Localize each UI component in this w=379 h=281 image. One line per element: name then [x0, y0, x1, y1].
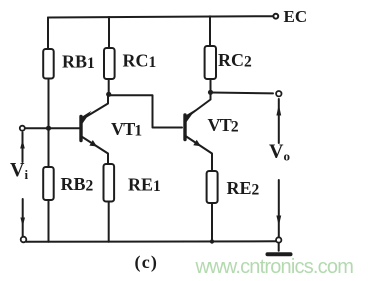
- svg-text:VT1: VT1: [111, 119, 141, 140]
- svg-text:RE1: RE1: [128, 175, 161, 196]
- svg-text:RC1: RC1: [123, 51, 157, 72]
- svg-text:Vi: Vi: [10, 159, 28, 182]
- svg-text:Vo: Vo: [269, 141, 290, 164]
- svg-text:RB2: RB2: [61, 174, 94, 195]
- svg-text:EC: EC: [284, 7, 308, 26]
- svg-text:VT2: VT2: [208, 115, 239, 136]
- svg-text:(c): (c): [135, 252, 159, 273]
- svg-text:RB1: RB1: [62, 52, 95, 73]
- svg-text:RC2: RC2: [218, 50, 252, 71]
- svg-text:www.cntronics.com: www.cntronics.com: [195, 256, 354, 278]
- svg-text:RE2: RE2: [227, 178, 260, 199]
